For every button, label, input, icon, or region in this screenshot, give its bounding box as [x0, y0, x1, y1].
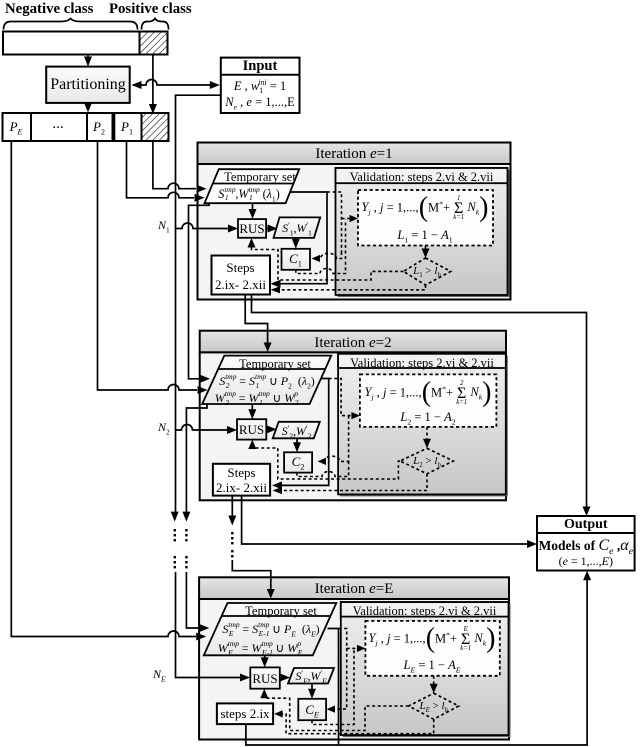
wire: parallelogramE to RUS E: [264, 655, 266, 659]
label Output header: [564, 517, 608, 533]
parallelogram temporary set 2: [202, 356, 331, 404]
dashed: C1 bottom loop up to Y-line: [296, 220, 346, 274]
wire: lambdaE solid from parallelogram right down to bottom bus: [328, 629, 339, 746]
label dots: [52, 116, 63, 133]
label Positive class: [109, 1, 192, 18]
formula L1: [397, 228, 452, 245]
label diamond1: [413, 265, 441, 279]
box Steps2: [213, 464, 270, 496]
wire: Partitioning - Input double arrow with hop: [133, 80, 218, 86]
wire: Input to N-line: [176, 95, 221, 516]
wire: Steps2 down arrow + dots to iterationE header: [231, 496, 233, 520]
wire: S'EW'E to CE: [311, 684, 313, 691]
dashed: branch down into C2 with hop: [322, 416, 349, 462]
box steps 2.ix: [217, 703, 273, 724]
label steps 2.ix: [220, 706, 269, 722]
formula L2: [400, 410, 455, 427]
N2 branch (hop over S2-line): [176, 425, 234, 430]
wire: lambda1 solid from parallelogram right to Steps1: [272, 192, 327, 284]
N-line arrow + dots then resume: [171, 512, 179, 522]
parallelogram S'2 W'2: [273, 422, 320, 439]
box RUS1: [238, 219, 266, 238]
iteration2 body box: [200, 352, 506, 500]
label Input line1: [234, 78, 286, 95]
label Partitioning: [50, 76, 126, 94]
validationE panel: [343, 604, 511, 737]
positive class bar (hatched): [140, 32, 168, 55]
wire: P_E to iterationE parallelogram row2 (hop over N-line): [11, 141, 196, 637]
dashed: diamond2 left back to RUS2: [252, 443, 400, 479]
label Validation 2: [350, 356, 494, 371]
wire: Steps1 output to Output box top: [252, 295, 587, 509]
box Input: [221, 58, 300, 113]
label Iteration e=E: [315, 581, 394, 598]
formula S'E W'E: [295, 669, 326, 685]
formula S'2 W'2: [282, 424, 312, 440]
label C2: [292, 454, 305, 472]
wire: RUS2 to S'2W'2: [266, 428, 267, 430]
validationE inner dashed box: [365, 621, 499, 676]
label N_2: [158, 420, 170, 436]
wire: parallelogram1 to RUS1: [252, 203, 254, 210]
brace negative class: [4, 19, 138, 30]
label RUS E: [252, 671, 277, 687]
box Output: [537, 516, 635, 571]
dashed: temp set to validation1 Y box, branch: [327, 192, 342, 252]
N-line resume down to N_E elbow into RUS_E: [176, 572, 247, 678]
label P_2: [93, 119, 105, 137]
label diamondE: [419, 700, 447, 714]
wire: S'1W'1 to C1: [295, 238, 297, 240]
dashed: hop-arrow into C1 right: [316, 252, 342, 259]
label RUS1: [239, 221, 264, 237]
label N_1: [158, 218, 170, 234]
validation2 panel: [340, 356, 508, 497]
wire: P_2 to iteration2 parallelogram row2 (hop over N-line): [98, 141, 198, 390]
wire: Steps1 down to iteration2 header: [245, 295, 267, 345]
box C1: [282, 249, 311, 270]
dashed: Y box 2 to diamond2: [426, 427, 428, 441]
wire: lambda2 solid from parallelogram right to Steps2: [274, 379, 329, 486]
label P_E: [10, 119, 23, 137]
label Temporary set 1: [224, 170, 296, 185]
dashed: diamond2 bottom to Steps2: [277, 474, 427, 491]
dashed: Y box to diamond1: [425, 246, 427, 251]
box CE: [298, 699, 326, 720]
label Iteration e=1: [315, 146, 392, 163]
label Negative class: [5, 1, 93, 18]
formula W2 row: [215, 391, 306, 406]
formula SE row: [222, 622, 319, 638]
wire: hatched cell to iteration1 parallelogram row1 (hop over N-line): [153, 141, 196, 189]
dashed: Y box E to diamondE: [433, 676, 435, 686]
formula Y1: [362, 196, 489, 221]
box Steps1: [212, 256, 271, 295]
wire: S'2W'2 to C2: [296, 438, 298, 443]
label Temporary set E: [245, 604, 317, 619]
label Models of: [538, 537, 633, 557]
wire: RUS E to S'E W'E: [280, 677, 281, 679]
negative class bar: [3, 32, 140, 55]
label P_1: [121, 119, 133, 137]
dashed: diamond1 bottom to Steps1: [275, 285, 426, 290]
formula WE row: [218, 641, 309, 656]
wire: Steps2 output to Output box left: [242, 496, 532, 544]
wire: P_1 to iteration1 parallelogram row2 (hop over N-line): [127, 141, 195, 198]
validation2 inner dashed box: [360, 374, 497, 427]
wire: Partitioning to P row: [87, 102, 89, 105]
box C2: [284, 452, 312, 472]
dashed: CE bottom loop: [312, 648, 354, 724]
label RUS2: [239, 422, 264, 438]
label Validation 1: [350, 170, 494, 185]
wire: steps 2.ix output bus to Output box bottom: [246, 576, 587, 745]
box positive hatched cell: [142, 113, 169, 141]
formula S2 row: [219, 374, 315, 390]
S1-line: iteration1 parallelogram to iteration2 parallelogram row1: [189, 203, 210, 379]
parallelogram S'E W'E: [288, 668, 334, 684]
dashed: temp set 2 to validation2 Y box, branch: [329, 379, 355, 416]
box P_E: [3, 113, 32, 141]
box dots cell: [31, 113, 87, 141]
dashed: diamondE left back to RUS E: [264, 693, 408, 731]
formula S'1 W'1: [282, 221, 312, 237]
validation1 inner dashed box: [358, 190, 493, 246]
label Validation E: [353, 604, 497, 619]
iteration2 header bar: [200, 331, 506, 353]
label e range: [559, 554, 613, 569]
label Input header: [243, 58, 278, 75]
parallelogram temporary set 1: [205, 169, 300, 203]
iterationE body box: [199, 599, 509, 740]
dashed: diamond1 left back to RUS1: [252, 242, 404, 280]
formula S1 W1: [218, 187, 280, 203]
formula LE: [404, 658, 461, 675]
label C1: [289, 251, 302, 269]
parallelogram temporary set E: [204, 603, 336, 655]
validation1 panel: [338, 170, 510, 297]
wire: bar to Partitioning: [87, 55, 89, 58]
dashed: diamondE bottom to steps 2.ix: [279, 714, 434, 734]
dashed: temp set E to validationE Y box, branch: [331, 629, 347, 710]
label Steps1: [215, 259, 266, 294]
diamondE: [409, 693, 459, 719]
label Iteration e=2: [314, 335, 391, 352]
label Temporary set 2: [239, 357, 311, 372]
S2-line: iteration2 parallelogram to iterationE (arrow+dots mid): [186, 404, 207, 516]
wire: RUS1 to S'1W'1: [266, 228, 268, 230]
box P_2: [87, 113, 113, 141]
label N_E: [153, 667, 166, 683]
label Steps2: [216, 465, 267, 496]
parallelogram S'1 W'1: [274, 217, 321, 238]
label CE: [305, 702, 319, 720]
box Partitioning: [46, 67, 130, 103]
label Input line2: [225, 95, 295, 112]
box P_1: [114, 113, 141, 141]
arrow into iterationE header (redraw): [270, 577, 272, 590]
arrow into iteration2 header (re-draw over): [267, 331, 269, 344]
label diamond2: [413, 455, 441, 469]
N1 branch (hop over S1-line): [176, 223, 235, 229]
diamond1: [404, 258, 451, 285]
diamond2: [400, 448, 453, 474]
iteration1 body box: [198, 164, 511, 300]
formula YE: [369, 627, 496, 652]
box RUS E: [250, 667, 279, 688]
wire: parallelogram2 to RUS2: [251, 404, 253, 411]
brace positive class: [142, 19, 169, 30]
box RUS2: [237, 419, 266, 439]
iterationE header bar: [199, 577, 509, 599]
dashed: C2 bottom loop to bus: [297, 461, 349, 476]
formula Y2: [365, 381, 492, 406]
iteration1 header bar: [198, 143, 511, 165]
wire: positive bar down to P-row hatched cell: [152, 55, 154, 105]
